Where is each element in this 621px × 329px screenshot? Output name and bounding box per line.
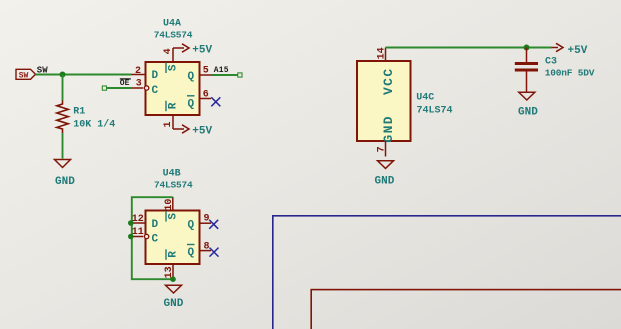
resistor R1 [57,101,68,134]
U4A pin 6 (/Q) [200,90,212,101]
U4B pin name /Q [187,245,195,260]
U4B pin name /R (rotated) [166,249,179,259]
svg-text:100nF 5DV: 100nF 5DV [545,67,595,78]
U4A pin name /R (rotated) [166,101,179,112]
svg-text:+5V: +5V [192,44,212,56]
ground (U4B) [164,285,184,310]
svg-text:5: 5 [203,65,209,76]
svg-text:74LS74: 74LS74 [417,106,453,117]
svg-text:C: C [152,234,159,246]
U4C pin 7 (GND) [377,141,388,157]
U4B pin 13 (/R) [164,264,175,279]
U4A pin 4 (/S) [163,48,174,62]
svg-text:R: R [167,102,179,109]
svg-text:10K 1/4: 10K 1/4 [73,119,115,131]
U4B pin 8 (/Q) [200,241,212,252]
U4A pin 1 (/R) [163,115,174,129]
svg-text:+5V: +5V [192,125,212,137]
IC power unit U4C body [357,61,411,141]
svg-text:+5V: +5V [568,45,588,57]
svg-text:S: S [167,213,179,220]
U4A pin name /S (rotated) [166,63,179,74]
svg-text:9: 9 [204,214,210,225]
svg-text:Q: Q [188,220,195,232]
U4B pin 9 (Q) [200,214,212,225]
no-connect X on U4B pin 9 [209,220,218,229]
svg-text:VCC: VCC [381,67,396,95]
hierarchical sheet (blue) [273,216,621,329]
svg-text:74LS574: 74LS574 [154,30,193,41]
svg-text:14: 14 [377,47,388,59]
svg-text:4: 4 [163,48,174,54]
power +5V (right) [552,43,588,57]
ground (R1) [55,160,76,189]
svg-text:U4B: U4B [163,169,181,180]
svg-text:D: D [152,219,159,231]
U4B pin name /S (rotated) [166,211,179,222]
net label OE (overbar) [120,79,131,88]
svg-text:Q: Q [188,247,195,259]
capacitor C3 [515,48,538,92]
svg-text:1: 1 [163,121,174,127]
U4B pin 11 (C) with bubble [132,227,149,239]
power +5V (U4A top) [173,44,213,57]
sheet/box (dark red) [311,290,621,329]
svg-text:U4A: U4A [163,19,181,30]
svg-text:D: D [152,70,159,82]
wire loop pin10 to pin13 [132,197,173,279]
flip-flop U4A body [146,62,200,115]
svg-text:8: 8 [204,241,210,252]
svg-text:S: S [167,64,179,71]
svg-text:2: 2 [135,66,141,77]
svg-text:GND: GND [164,298,184,310]
wire OE to U4A pin 3 (dangling end square) [102,86,131,90]
svg-text:10: 10 [164,199,175,211]
svg-text:R1: R1 [73,107,85,118]
U4C pin 14 (VCC) [377,47,388,61]
svg-text:GND: GND [518,107,538,119]
U4B pin 12 (D) [132,214,146,225]
wire A15 (dangling end square) [211,73,242,77]
svg-text:3: 3 [136,78,142,89]
junction node pin13 [170,276,176,282]
svg-text:R: R [167,251,179,258]
svg-text:OE: OE [120,79,130,88]
svg-text:74LS574: 74LS574 [154,179,193,190]
svg-text:7: 7 [377,146,388,152]
ground (C3) [518,92,538,118]
U4A pin name /Q [187,96,195,111]
ground (U4C) [375,161,395,188]
U4A pin 2 (D) [132,66,146,77]
svg-text:C3: C3 [545,56,557,67]
svg-text:6: 6 [203,90,209,101]
svg-text:GND: GND [55,176,75,188]
svg-text:GND: GND [381,115,396,143]
svg-text:U4C: U4C [416,93,434,104]
U4A pin 5 (Q) [200,65,212,76]
junction node SW/R1 [60,72,66,78]
global label SW [16,69,36,80]
no-connect X on U4B pin 8 [210,248,219,257]
wire SW to U4A pin 2 [36,74,132,76]
junction node C3 [524,45,530,51]
svg-text:A15: A15 [214,66,229,75]
svg-text:SW: SW [19,72,29,81]
junction node pin12 [128,220,134,226]
wire U4C pin14 to +5V [386,47,552,49]
wire junction to R1 [62,75,64,101]
power +5V (U4A bottom) [173,125,213,138]
U4B pin 10 (/S) [164,197,175,211]
flip-flop U4B body [146,211,200,265]
no-connect X on U4A pin 6 [211,97,220,106]
svg-text:C: C [152,85,159,97]
U4A pin 3 (C) with bubble [132,78,149,90]
svg-text:Q: Q [188,99,195,111]
svg-text:Q: Q [188,71,195,83]
wire R1 to ground [62,133,64,159]
junction node pin11 [128,234,134,240]
svg-text:GND: GND [375,175,395,187]
